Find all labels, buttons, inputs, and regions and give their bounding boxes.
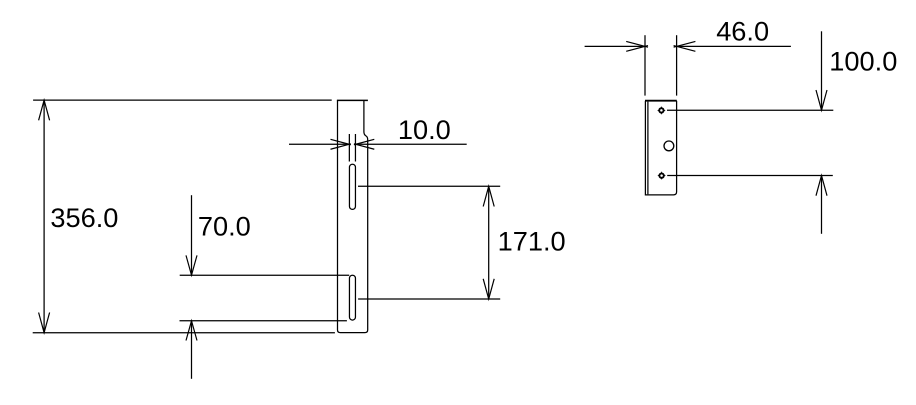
svg-text:356.0: 356.0 [50, 202, 118, 233]
svg-text:10.0: 10.0 [398, 114, 451, 145]
svg-text:46.0: 46.0 [716, 16, 769, 47]
svg-text:70.0: 70.0 [198, 211, 251, 242]
svg-text:100.0: 100.0 [829, 46, 897, 77]
svg-text:171.0: 171.0 [498, 226, 566, 257]
